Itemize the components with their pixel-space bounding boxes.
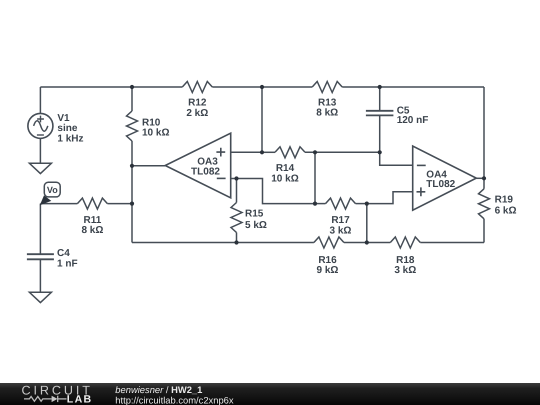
svg-text:120 nF: 120 nF [397,115,429,126]
svg-text:R19: R19 [495,195,514,206]
svg-text:3 kΩ: 3 kΩ [394,265,416,276]
svg-text:3 kΩ: 3 kΩ [330,225,352,236]
svg-text:8 kΩ: 8 kΩ [81,225,103,236]
svg-text:R15: R15 [245,209,264,220]
svg-text:http://circuitlab.com/c2xnp6x: http://circuitlab.com/c2xnp6x [115,394,234,405]
svg-text:R18: R18 [396,255,415,266]
svg-text:9 kΩ: 9 kΩ [317,265,339,276]
svg-text:5 kΩ: 5 kΩ [245,220,267,231]
svg-text:TL082: TL082 [191,167,220,178]
svg-text:8 kΩ: 8 kΩ [316,108,338,119]
svg-text:1 kHz: 1 kHz [57,133,83,144]
svg-text:10 kΩ: 10 kΩ [271,173,298,184]
svg-text:1 nF: 1 nF [57,258,78,269]
svg-text:Vo: Vo [47,185,58,195]
svg-text:10 kΩ: 10 kΩ [142,128,169,139]
svg-text:6 kΩ: 6 kΩ [495,205,517,216]
svg-text:2 kΩ: 2 kΩ [186,108,208,119]
svg-text:LAB: LAB [67,393,93,405]
svg-text:TL082: TL082 [426,179,455,190]
svg-text:C4: C4 [57,248,70,259]
svg-text:R16: R16 [318,255,337,266]
